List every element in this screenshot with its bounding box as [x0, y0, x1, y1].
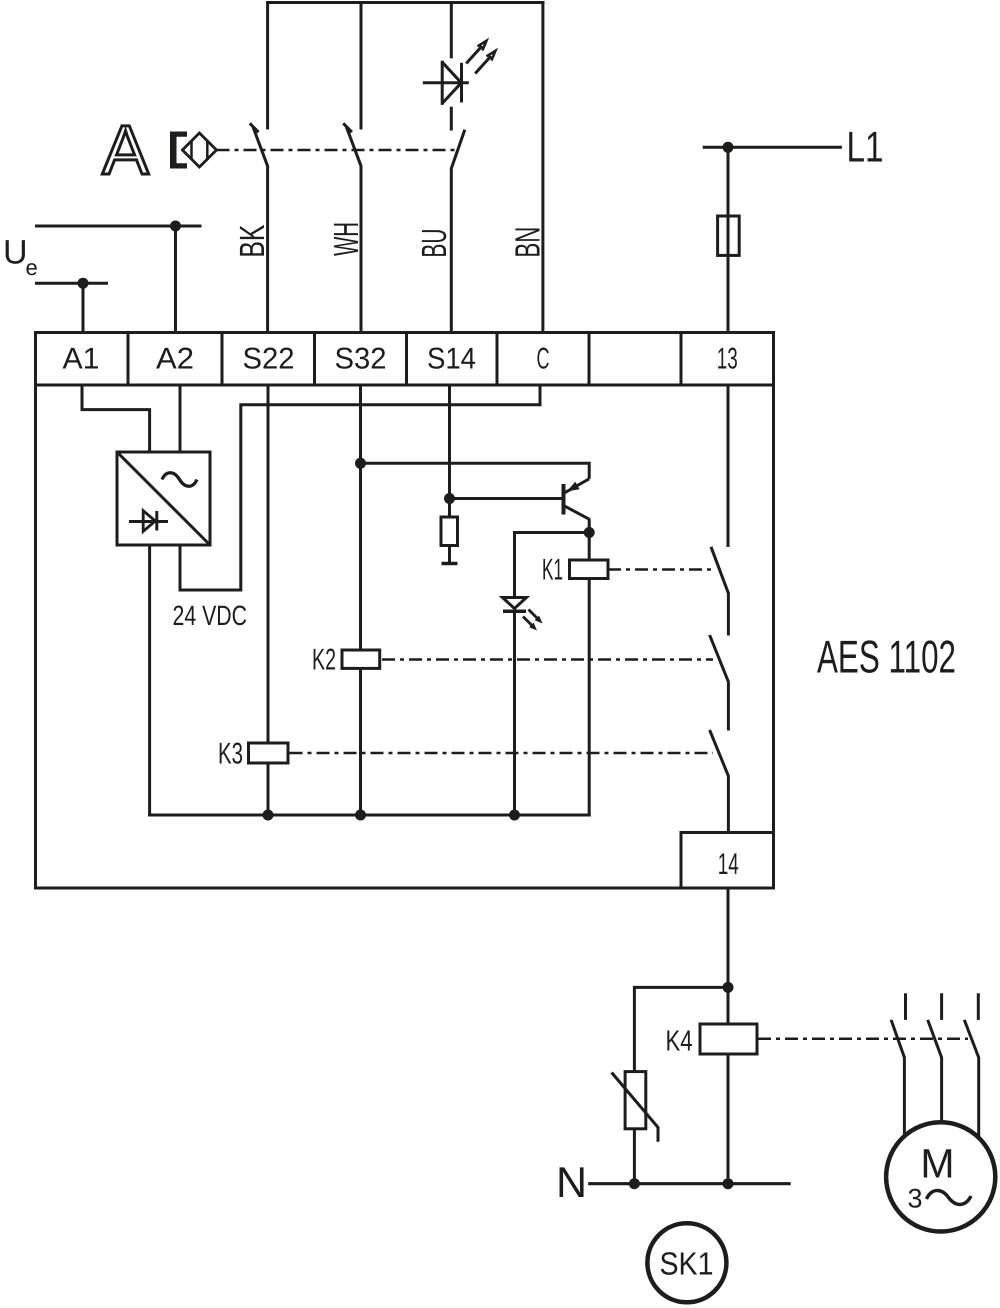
svg-text:AES 1102: AES 1102 — [817, 631, 956, 683]
terminal label 13 — [717, 343, 738, 376]
wire S22 rail upper — [267, 385, 270, 745]
wire S32 rail upper — [359, 385, 362, 653]
wire K4 to N — [727, 1054, 730, 1184]
node on A2 wire — [170, 221, 181, 232]
contact K4 pole 2 — [928, 1020, 942, 1058]
wire varistor to N — [633, 1129, 636, 1184]
wire N — [588, 1182, 791, 1185]
contact S14 (BU, NO) — [451, 130, 465, 169]
label K3 — [218, 738, 243, 771]
wire 14 down — [727, 887, 730, 1026]
dash-dot link K1 — [608, 568, 713, 571]
wire sensor cable top — [266, 1, 544, 4]
node bus S32 — [355, 810, 366, 821]
relay coil K3 — [249, 743, 289, 763]
svg-text:S14: S14 — [427, 343, 476, 376]
wire L1 feed — [703, 146, 842, 149]
terminal 14 box — [681, 833, 774, 889]
dash-dot actuation link from sensor — [217, 149, 456, 152]
relay coil K2 — [342, 650, 380, 668]
wire BU lower — [450, 168, 453, 331]
node L1 — [723, 142, 734, 153]
wire BK lower — [266, 167, 269, 332]
svg-text:WH: WH — [327, 222, 366, 256]
svg-text:BU: BU — [415, 229, 454, 258]
wire to internal LED — [515, 533, 590, 599]
svg-text:14: 14 — [718, 848, 739, 881]
svg-text:SK1: SK1 — [660, 1246, 714, 1282]
svg-text:BK: BK — [233, 225, 272, 258]
motor M1 (3~) — [886, 1122, 995, 1231]
wire S22 rail lower — [267, 763, 270, 815]
wire WH upper — [360, 2, 363, 130]
svg-text:N: N — [556, 1159, 587, 1207]
label K4 — [666, 1026, 693, 1058]
wire PSU minus rail — [148, 545, 151, 817]
svg-text:24 VDC: 24 VDC — [173, 600, 248, 631]
sensor B1 magnet actuator symbol — [170, 132, 217, 169]
wire A2 stub — [174, 226, 177, 331]
svg-text:C: C — [537, 343, 550, 376]
node bus S22 — [263, 810, 274, 821]
contact K4 pole 1 — [891, 1020, 905, 1058]
wire BN — [541, 2, 544, 331]
terminal dividers — [128, 331, 681, 385]
wire K1 to bus — [588, 579, 591, 817]
wire 13 down — [727, 385, 730, 547]
wire motor stub 3 — [977, 993, 980, 1020]
wire branch to varistor — [634, 987, 728, 1073]
node N varistor — [629, 1178, 640, 1189]
wire S14 rail — [448, 385, 451, 518]
wire emitter feed — [361, 463, 590, 479]
label K1 — [542, 554, 563, 587]
contact S22 (BK, NC) — [250, 123, 268, 167]
LED sensor indicator — [423, 41, 496, 105]
node S32 emitter tap — [355, 458, 366, 469]
power supply U1 (AC/DC converter) — [117, 452, 210, 545]
wire BU middle — [450, 107, 453, 131]
terminal label 14 — [718, 848, 739, 881]
label K2 — [312, 644, 336, 677]
terminal label A1 — [63, 343, 100, 376]
terminal label S14 — [427, 343, 476, 376]
node base — [444, 493, 455, 504]
wire pole3 to motor — [977, 1058, 980, 1138]
svg-text:K1: K1 — [542, 554, 563, 587]
transistor Q1 (PNP) — [564, 479, 590, 519]
node N K4 — [723, 1178, 734, 1189]
svg-text:A: A — [102, 111, 149, 189]
wire LED to bus — [513, 611, 516, 815]
label N — [556, 1159, 587, 1207]
svg-text:e: e — [26, 255, 38, 280]
terminal label S22 — [243, 343, 295, 376]
node on A1 wire — [78, 278, 89, 289]
terminal label A2 — [156, 343, 194, 376]
terminal label C — [537, 343, 550, 376]
svg-text:A2: A2 — [156, 343, 194, 376]
dash-dot link K4 — [758, 1038, 968, 1041]
LED internal indicator — [503, 598, 543, 631]
wire A1 to PSU — [82, 385, 150, 452]
contact K1 (NO) — [711, 547, 729, 594]
wire pole2 to motor — [940, 1058, 943, 1123]
node collector — [584, 527, 595, 538]
node bus LED — [509, 810, 520, 821]
wire A1 stub — [82, 283, 85, 331]
wire motor stub 2 — [940, 993, 943, 1020]
resistor R1 — [441, 517, 458, 546]
svg-text:13: 13 — [717, 343, 738, 376]
wire BU upper — [450, 2, 453, 58]
wire motor stub 1 — [904, 993, 907, 1020]
svg-text:3: 3 — [907, 1184, 922, 1214]
svg-text:BN: BN — [509, 227, 548, 258]
dash-dot link K3 — [290, 752, 714, 755]
wire L1 down — [727, 147, 730, 331]
wire S32 rail lower — [359, 668, 362, 815]
fuse F1 — [718, 216, 740, 255]
wire Ue minus — [35, 282, 108, 285]
svg-text:K4: K4 — [666, 1026, 693, 1058]
relay coil K4 — [700, 1024, 757, 1054]
svg-text:K2: K2 — [312, 644, 336, 677]
node K4 branch — [723, 982, 734, 993]
wire between contacts 2-3 — [727, 682, 730, 731]
contact K2 (NO) — [710, 635, 729, 682]
label BU — [415, 229, 454, 258]
wire below R1 — [448, 546, 451, 563]
label Ue — [3, 234, 38, 281]
terminal row bottom line — [34, 384, 774, 387]
wire contact to 14 — [727, 776, 730, 833]
terminal bar below R1 — [442, 562, 458, 566]
contact S32 (WH, NC) — [343, 123, 361, 167]
wire base lead — [450, 497, 563, 500]
label BN — [509, 227, 548, 258]
wire K1 from collector — [588, 533, 591, 562]
label 24 VDC — [173, 600, 248, 631]
svg-text:K3: K3 — [218, 738, 243, 771]
wire A2 to PSU — [179, 385, 182, 452]
svg-text:U: U — [3, 234, 28, 272]
wire WH lower — [360, 167, 363, 332]
dash-dot link K2 — [382, 658, 713, 661]
label WH — [327, 222, 366, 256]
terminal label S32 — [335, 343, 387, 376]
label L1 — [847, 124, 884, 172]
svg-text:A1: A1 — [63, 343, 100, 376]
varistor RV1 — [612, 1072, 658, 1142]
label BK — [233, 225, 272, 258]
svg-text:L1: L1 — [847, 124, 884, 172]
svg-text:S22: S22 — [243, 343, 295, 376]
contact K4 pole 3 — [964, 1020, 979, 1058]
module AES 1102 outline — [36, 333, 774, 889]
contact K3 (NO) — [710, 730, 729, 777]
wire collector — [588, 519, 591, 534]
module label AES 1102 — [817, 631, 956, 683]
wire Ue plus — [35, 225, 202, 228]
marker SK1 — [647, 1223, 726, 1302]
wire BK upper — [266, 2, 269, 130]
wire 24VDC to C — [180, 385, 540, 590]
relay coil K1 — [570, 560, 609, 579]
svg-text:S32: S32 — [335, 343, 387, 376]
svg-text:M: M — [920, 1141, 954, 1187]
wire pole1 to motor — [903, 1058, 906, 1136]
wire 0V bus — [148, 814, 591, 817]
wire between contacts 1-2 — [727, 593, 730, 635]
sensor label A — [102, 111, 149, 189]
